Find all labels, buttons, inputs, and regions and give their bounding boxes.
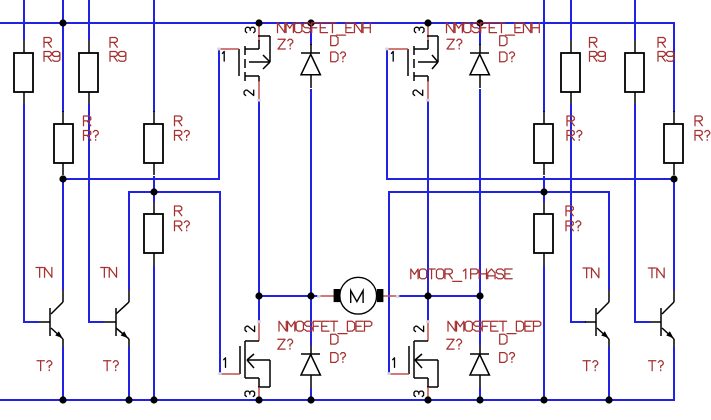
wire bottom ground rail	[0, 399, 674, 401]
label R6 value R	[567, 116, 574, 126]
label R9 value R	[590, 38, 597, 48]
label R5 value R	[175, 206, 182, 216]
label Q2 name Z?	[447, 39, 454, 49]
label T1 value TN	[36, 267, 43, 269]
wire T2 emitter to ground rail	[128, 347, 130, 400]
label R7 value R	[695, 116, 702, 126]
label R6 name R?	[567, 131, 574, 141]
pin marker Q4 pin2	[426, 320, 429, 323]
label R3 name R?	[84, 131, 91, 141]
junction gate3 node / R5	[150, 188, 157, 195]
resistor R1 (R R9)	[23, 40, 25, 53]
junction ground / D3 anode	[307, 396, 314, 403]
wire top supply rail	[0, 22, 674, 24]
wire R5 bottom to ground rail	[153, 266, 155, 400]
transistor T2 NPN TN	[115, 308, 117, 336]
junction motor node right / Q2-Q4	[424, 292, 431, 299]
wire column x24 top feed	[23, 0, 25, 40]
label D3 name D?	[331, 353, 338, 363]
junction gate4 node / R8	[540, 188, 547, 195]
resistor R4 (R R?)	[153, 111, 155, 124]
label Q3 name Z?	[278, 339, 285, 349]
label D1 name D?	[331, 52, 338, 62]
label R9 name R9	[590, 52, 597, 62]
label Q3 value NMOSFET_DEP	[279, 321, 286, 331]
resistor R2 (R R9)	[88, 40, 90, 53]
wire node gate4: Q4 gate to T3 collector	[389, 192, 609, 374]
junction ground / T2 emitter	[125, 396, 132, 403]
wire top rail down to D1 cathode	[310, 23, 312, 45]
diode D1	[301, 52, 320, 54]
wire column x63 above rail	[62, 0, 64, 23]
label R8 value R	[566, 206, 573, 216]
label R3 value R	[84, 116, 91, 126]
pin marker motor pin2	[396, 295, 399, 298]
label R2 name R9	[110, 52, 117, 62]
label R7 name R?	[695, 131, 702, 141]
transistor T1 NPN TN	[49, 308, 51, 336]
pin marker Q3 gate	[218, 372, 221, 375]
wire motor row right segment	[398, 295, 480, 297]
junction ground / R5 column	[150, 396, 157, 403]
wire T3 emitter to ground rail	[608, 347, 610, 400]
junction top rail / D2 cathode	[476, 19, 483, 26]
junction ground / R8 column	[540, 396, 547, 403]
junction motor row end / D2-D4	[476, 292, 483, 299]
wire R9 down to T3 base corner	[571, 104, 586, 322]
pin number Q2 pin1	[391, 52, 393, 62]
wire column x635 top feed	[634, 0, 636, 40]
resistor R8 (R R?)	[543, 202, 545, 214]
label D4 value D	[500, 334, 507, 344]
wire R1 down to T1 base corner	[24, 104, 39, 322]
label Q4 name Z?	[447, 339, 454, 349]
pin number Q4 pin1	[393, 358, 395, 368]
wire bottom rail right end up to T4 emitter	[673, 347, 675, 401]
label R4 name R?	[175, 131, 182, 141]
wire R8 bottom through node down to T4 collector	[673, 176, 675, 290]
diode D2	[470, 52, 489, 54]
junction gate1 node	[59, 175, 66, 182]
junction top rail / Q2 drain	[424, 19, 431, 26]
pin number Q2 pin3	[414, 27, 424, 32]
pin marker Q2 gate	[385, 48, 388, 51]
label D2 name D?	[500, 52, 507, 62]
junction ground / Q4 drain pin	[424, 396, 431, 403]
pin number Q2 pin2	[413, 90, 423, 95]
label D1 value D	[331, 36, 338, 46]
wire R10 down to T4 base corner	[635, 104, 650, 322]
wire motor node down to Q4 drain	[427, 296, 429, 321]
label T4 value TN	[648, 267, 655, 269]
wire D4 anode to ground rail	[479, 388, 481, 400]
label T2 name T?	[104, 360, 111, 362]
junction motor node left / Q1-Q3	[255, 292, 262, 299]
label D3 value D	[331, 334, 338, 344]
wire R8b bottom to ground rail	[543, 266, 545, 400]
resistor R7 (R R?)	[673, 111, 675, 124]
junction motor row / D1-D3	[307, 292, 314, 299]
label T3 name T?	[583, 360, 590, 362]
label R4 value R	[175, 116, 182, 126]
n-mosfet Q3 NMOSFET_DEP Z?	[258, 321, 260, 341]
pin marker motor pin1	[317, 295, 320, 298]
wire node gate1: R3 to Q1 gate	[63, 49, 219, 179]
junction gate2 node / R7	[670, 175, 677, 182]
label Q4 value NMOSFET_DEP	[448, 321, 455, 331]
label R2 value R	[110, 38, 117, 48]
wire D3 anode to ground rail	[310, 388, 312, 400]
pin number Q4 pin2	[414, 326, 424, 331]
pin marker Q3 pin2	[257, 320, 260, 323]
diode D4	[470, 353, 489, 355]
label T2 value TN	[101, 267, 108, 269]
pin marker Q1 gate	[217, 48, 220, 51]
wire top rail right end down to R8	[673, 22, 675, 112]
wire column x544 top feed to R7	[543, 0, 545, 112]
wire motor row end down to D4 cathode	[479, 296, 481, 345]
wire column x154 top feed to R4	[153, 0, 155, 112]
wire node gate3: T2 collector to Q3 gate	[129, 192, 220, 374]
junction top rail / Q1 drain	[255, 19, 262, 26]
junction ground / T1 emitter	[59, 396, 66, 403]
label D2 value D	[500, 36, 507, 46]
pin marker Q2 source	[426, 99, 429, 102]
wire node gate2: Q2 gate to R8 node	[387, 49, 674, 179]
wire D2 anode down to motor row end	[479, 89, 481, 296]
label R8 name R?	[566, 221, 573, 231]
resistor R9 (R R9)	[570, 40, 572, 53]
motor M1 MOTOR_1PHASE	[319, 295, 334, 297]
wire motor row left segment	[259, 295, 319, 297]
wire motor row down to D3 cathode	[310, 296, 312, 345]
label Q2 value NMOSFET_ENH	[447, 23, 454, 33]
label R1 name R9	[44, 52, 51, 62]
pin marker Q1 source	[257, 99, 260, 102]
transistor T3 NPN TN	[595, 308, 597, 336]
n-mosfet Q1 NMOSFET_ENH Z?	[258, 26, 260, 41]
pin number Q3 pin3	[245, 391, 255, 396]
junction top rail / R3 column	[59, 19, 66, 26]
resistor R3 (R R?)	[62, 111, 64, 124]
label R10 name R9	[658, 52, 665, 62]
wire Q2 source down to motor node	[427, 99, 429, 296]
label T4 name T?	[649, 360, 656, 362]
pin number Q4 pin3	[414, 391, 424, 396]
junction top rail / D1 cathode	[307, 19, 314, 26]
resistor R10 (R R9)	[634, 40, 636, 53]
pin marker Q4 gate	[387, 372, 390, 375]
wire R4-R5 column through node x154	[153, 176, 155, 202]
pin number Q3 pin1	[224, 358, 226, 368]
wire motor node down to Q3 drain	[258, 296, 260, 321]
wire R2 down to T2 base corner	[89, 104, 104, 322]
junction ground / Q3 drain pin	[255, 396, 262, 403]
pin number Q1 pin2	[244, 90, 254, 95]
wire Q1 source down to motor node	[258, 99, 260, 296]
wire top rail down to D2 cathode	[479, 23, 481, 45]
label D4 name D?	[500, 353, 507, 363]
resistor R6 (R R?)	[543, 111, 545, 124]
junction ground / D4 anode	[476, 396, 483, 403]
label Q1 value NMOSFET_ENH	[278, 23, 285, 33]
pin number Q3 pin2	[245, 326, 255, 331]
wire D1 anode down to motor row	[310, 89, 312, 296]
diode D3	[301, 353, 320, 355]
transistor T4 NPN TN	[660, 308, 662, 336]
n-mosfet Q4 NMOSFET_DEP Z?	[427, 321, 429, 341]
label R5 name R?	[175, 221, 182, 231]
n-mosfet Q2 NMOSFET_ENH Z?	[427, 26, 429, 41]
pin number Q1 pin3	[245, 27, 255, 32]
wire column x89 top feed	[88, 0, 90, 40]
label T1 name T?	[37, 360, 44, 362]
label R1 value R	[44, 38, 51, 48]
wire column x571 top feed	[570, 0, 572, 40]
wire R6-R8 column through node x544	[543, 176, 545, 202]
label motor value MOTOR_1PHASE	[411, 269, 418, 279]
resistor R5 (R R?)	[153, 202, 155, 214]
junction ground / T3 emitter	[605, 396, 612, 403]
wire column x63 rail to R3	[62, 23, 64, 112]
wire R3 bottom through node to T1 collector	[62, 176, 64, 290]
pin number Q1 pin1	[222, 52, 224, 62]
wire T1 emitter to ground rail	[62, 347, 64, 400]
label T3 value TN	[583, 267, 590, 269]
label R10 value R	[658, 38, 665, 48]
label Q1 name Z?	[278, 39, 285, 49]
